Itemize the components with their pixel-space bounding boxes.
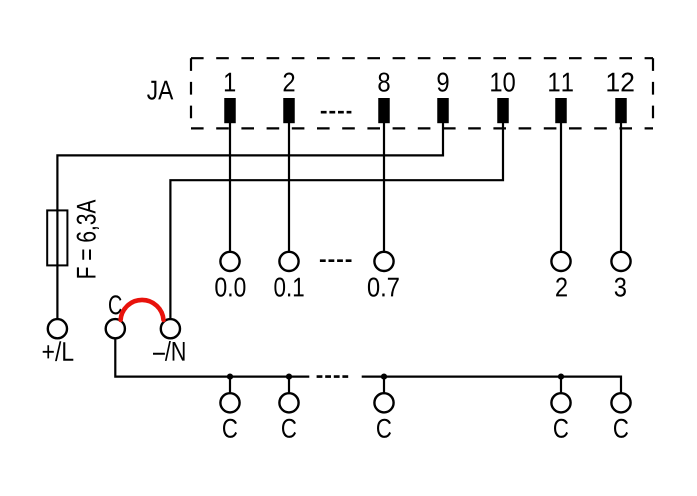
- junction node d: [558, 374, 564, 393]
- bottom terminal C a: [220, 393, 239, 438]
- terminal -/N: [153, 319, 185, 361]
- terminal +/L: [43, 319, 74, 361]
- junction node b: [286, 374, 292, 393]
- value label F = 6,3A: [77, 200, 99, 278]
- terminal 0.1: [274, 252, 303, 297]
- terminal C (jumper left): [106, 295, 125, 338]
- connector JA dashed box: [191, 58, 653, 128]
- bottom terminal C d: [551, 393, 570, 438]
- terminal 3: [611, 252, 630, 297]
- pin 9: [437, 73, 449, 124]
- ellipsis terminals 0.2..0.6: [320, 259, 352, 262]
- junction node c: [381, 374, 387, 393]
- terminal 2: [551, 252, 570, 297]
- wire pin2 to terminal 0.1: [288, 123, 290, 251]
- pin 12: [607, 73, 633, 124]
- wire C terminal to bottom bus: [115, 339, 309, 377]
- label JA: [147, 81, 173, 100]
- pin 8: [378, 73, 390, 124]
- wire pin8 to terminal 0.7: [383, 123, 385, 251]
- pin 2: [283, 73, 295, 124]
- terminal 0.0: [215, 252, 245, 297]
- wire pin9 to node L (fuse input): [57, 123, 443, 318]
- pin 1: [224, 73, 236, 123]
- terminal 0.7: [368, 252, 399, 297]
- bus wire right section: [362, 377, 621, 393]
- bottom terminal C e: [611, 393, 630, 438]
- ellipsis pins 3..7: [321, 111, 352, 114]
- pin 11: [549, 73, 573, 123]
- red comb jumper C to -/N: [121, 300, 164, 320]
- wire pin1 to terminal 0.0: [229, 123, 231, 251]
- wire pin12 to terminal 3: [620, 123, 622, 251]
- fuse F1: [47, 210, 67, 265]
- pin 10: [491, 73, 515, 124]
- bottom terminal C c: [374, 393, 393, 438]
- wire pin10 to terminal -/N: [170, 123, 503, 319]
- junction node a: [227, 374, 233, 393]
- bottom terminal C b: [279, 393, 298, 438]
- ellipsis bus segment: [317, 375, 351, 378]
- wire pin11 to terminal 2: [560, 123, 562, 251]
